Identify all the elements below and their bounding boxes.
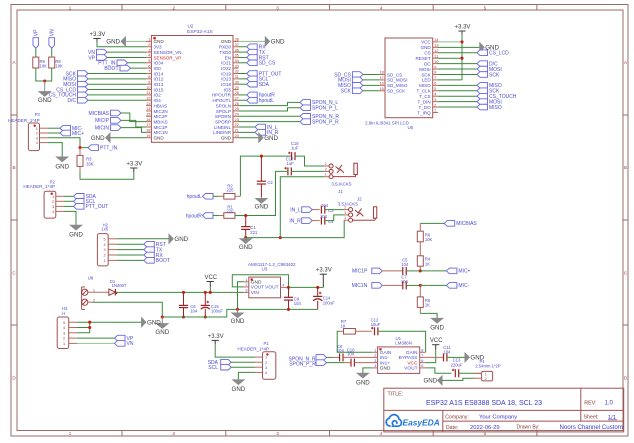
svg-text:PTT_IN: PTT_IN (100, 145, 118, 151)
svg-text:221: 221 (250, 230, 258, 235)
capacitor C2 (260, 156, 262, 181)
svg-text:220uF: 220uF (451, 362, 463, 367)
svg-text:104: 104 (294, 301, 302, 306)
wire (121, 120, 146, 127)
net flag D/C (78, 97, 89, 103)
svg-text:1: 1 (103, 259, 105, 263)
svg-text:EasyEDA: EasyEDA (403, 417, 440, 427)
U2 pin 11 IO2 (146, 94, 151, 96)
wire (438, 73, 477, 75)
resistor R1 220 (219, 215, 224, 217)
svg-text:GND: GND (174, 236, 188, 243)
wire (438, 84, 477, 86)
svg-text:34: 34 (235, 59, 239, 63)
wire (325, 215, 344, 221)
net flag VN top (49, 38, 55, 49)
wire (438, 52, 477, 54)
junction (287, 286, 290, 289)
wire jack ground bus (246, 220, 345, 237)
net flag VP top (33, 38, 39, 49)
U6 pin 6 MISO (433, 84, 438, 86)
svg-text:10K: 10K (40, 63, 48, 68)
wire (235, 215, 246, 217)
capacitor C3 104 (312, 209, 320, 211)
junction (204, 315, 207, 318)
svg-text:HEADER_1*4P: HEADER_1*4P (237, 346, 269, 351)
svg-text:8: 8 (421, 349, 423, 353)
svg-text:2.54mm 1*2P: 2.54mm 1*2P (475, 364, 501, 369)
svg-text:hpoutL: hpoutL (187, 194, 203, 200)
net flag MIC- (48, 127, 60, 129)
junction (88, 321, 91, 324)
EasyEDA logo (386, 415, 401, 427)
svg-text:SPORP: SPORP (215, 119, 231, 124)
svg-text:SPOLN: SPOLN (216, 103, 231, 108)
wire (88, 89, 146, 91)
wire VOUT to C13 (426, 368, 452, 373)
svg-text:P3: P3 (35, 112, 41, 117)
wire (107, 51, 146, 53)
svg-text:4: 4 (36, 141, 38, 145)
ground GND flag at U2 pin20 (239, 137, 259, 139)
wire (239, 83, 247, 85)
net flag MIC+ (420, 270, 446, 272)
wire (117, 254, 144, 256)
wire (213, 215, 218, 217)
U2 pin 38 GND (233, 40, 239, 42)
svg-text:15: 15 (380, 87, 384, 91)
wire (363, 90, 380, 92)
title block (384, 388, 624, 432)
svg-text:14: 14 (146, 107, 150, 111)
ground at P3 pin4 (48, 143, 62, 157)
svg-text:2: 2 (325, 162, 327, 166)
U2 pin 1 GND (146, 40, 151, 42)
svg-text:MIC+: MIC+ (458, 269, 470, 275)
wire U8 pin2 to ground rail (92, 302, 162, 317)
wire (117, 243, 144, 245)
svg-text:35: 35 (235, 54, 239, 58)
wire R3 to +3.3V (79, 166, 81, 171)
svg-text:1: 1 (374, 349, 376, 353)
svg-text:ESP32 A1S ES8388 SDA 18, SCL 2: ESP32 A1S ES8388 SDA 18, SCL 23 (426, 400, 542, 407)
U2 pin 25 SPOLP (233, 110, 239, 112)
svg-text:SCL: SCL (208, 365, 218, 371)
wire (438, 106, 477, 108)
svg-text:13: 13 (146, 102, 150, 106)
svg-text:U2: U2 (187, 24, 193, 29)
svg-text:10: 10 (434, 60, 438, 64)
net flag MICBIAS right (420, 222, 444, 224)
connector J1 3.5JACKS (324, 165, 329, 167)
svg-text:B: B (12, 165, 15, 170)
net flag SCK (78, 71, 89, 77)
svg-text:+3.3V: +3.3V (316, 268, 332, 274)
svg-text:4: 4 (380, 5, 383, 10)
svg-text:MICBIAS: MICBIAS (456, 221, 477, 227)
svg-text:3: 3 (434, 98, 436, 102)
ground (44, 81, 46, 92)
U2 pin 2 3V3 (146, 46, 151, 48)
svg-text:2: 2 (36, 132, 38, 136)
svg-text:hpoutL: hpoutL (259, 98, 275, 104)
svg-text:GND: GND (155, 329, 169, 336)
junction (161, 315, 164, 318)
svg-text:SD_CS: SD_CS (387, 72, 402, 77)
svg-text:LM386N: LM386N (395, 340, 412, 345)
wire U3 VOUT loop (232, 275, 288, 288)
svg-text:29: 29 (235, 86, 239, 90)
svg-text:104: 104 (401, 279, 409, 284)
junction (287, 308, 290, 311)
svg-text:GND: GND (264, 135, 278, 142)
U6 pin 7 LED (433, 79, 438, 81)
ground (260, 197, 262, 198)
svg-text:SD_SCK: SD_SCK (387, 89, 405, 94)
svg-text:T_IRQ: T_IRQ (417, 110, 431, 115)
svg-text:GAIN: GAIN (406, 350, 418, 356)
U2 pin 28 HPOUTR (233, 94, 239, 96)
net flag MICBIAS at MBIAS (111, 110, 122, 116)
wire C17 to J1 ring (291, 170, 324, 172)
capacitor C6 104 (183, 292, 185, 305)
svg-text:T_CS: T_CS (419, 94, 431, 99)
svg-text:2: 2 (245, 283, 247, 287)
svg-text:1: 1 (52, 195, 54, 199)
svg-text:GND: GND (221, 39, 232, 44)
junction (204, 291, 207, 294)
svg-text:GND: GND (91, 135, 105, 142)
svg-text:T_DO: T_DO (419, 105, 432, 110)
svg-text:3: 3 (344, 211, 346, 215)
svg-text:GND: GND (251, 280, 262, 286)
svg-text:MIC1N: MIC1N (352, 283, 368, 289)
svg-text:3.5JACKS: 3.5JACKS (338, 201, 358, 206)
wire VOUT to +3.3V and C14 (289, 286, 324, 288)
svg-text:GND: GND (69, 232, 83, 239)
ground GND flag at C11 (447, 356, 465, 358)
wire (438, 68, 477, 70)
ground rail left (162, 309, 317, 317)
svg-text:2: 2 (434, 103, 436, 107)
svg-text:4: 4 (52, 210, 54, 214)
ground below rail at U3 (237, 309, 239, 313)
svg-text:HPOUTL: HPOUTL (213, 98, 232, 103)
svg-text:GND: GND (221, 136, 232, 141)
svg-text:Date:: Date: (446, 425, 458, 431)
svg-text:SPON_P_R: SPON_P_R (289, 362, 316, 368)
svg-text:CS_LCD: CS_LCD (489, 51, 509, 57)
svg-text:SD_MOSI: SD_MOSI (387, 78, 407, 83)
capacitor C4 104 (312, 220, 320, 222)
svg-text:17: 17 (380, 76, 384, 80)
svg-text:GND: GND (147, 319, 161, 326)
wire (363, 79, 380, 81)
U6 pin 3 T_DIN (433, 101, 438, 103)
svg-text:38: 38 (235, 38, 239, 42)
net flag SPON_P_L (239, 108, 301, 111)
wire (239, 78, 247, 80)
U2 pin 16 MBIAS (146, 121, 151, 123)
svg-text:GND: GND (356, 380, 370, 387)
wire U3 GND to rail (238, 282, 244, 310)
svg-text:1: 1 (69, 431, 72, 436)
wire (88, 94, 146, 96)
svg-text:TXD0: TXD0 (219, 50, 231, 55)
svg-text:15: 15 (146, 113, 150, 117)
svg-text:DC: DC (424, 61, 431, 66)
wire H3 pins 3-5 tied (77, 321, 141, 323)
svg-text:IO5: IO5 (224, 87, 232, 92)
svg-text:MIC2P: MIC2P (154, 114, 168, 119)
U2 pin 8 IO12 (146, 78, 151, 80)
U2 pin 7 IO14 (146, 73, 151, 75)
U2 pin 4 SENSOR_VP (146, 56, 151, 58)
svg-text:IO2: IO2 (154, 93, 162, 98)
U6 pin 15 SD_SCK (380, 90, 386, 92)
U6 pin 10 DC (433, 63, 438, 65)
svg-text:1K: 1K (425, 303, 430, 308)
wire (64, 200, 74, 202)
svg-text:T_DIN: T_DIN (418, 99, 431, 104)
svg-text:104: 104 (190, 309, 198, 314)
wire (239, 51, 247, 53)
svg-text:GND: GND (239, 244, 253, 251)
wire (438, 95, 477, 97)
svg-text:16: 16 (146, 118, 150, 122)
U2 pin 15 MIC2P (146, 115, 151, 117)
svg-text:SDA: SDA (259, 82, 270, 88)
svg-text:5: 5 (103, 237, 105, 241)
svg-text:VIN: VIN (251, 290, 260, 296)
wire (325, 209, 344, 211)
resistor R8 10K (51, 48, 53, 57)
svg-text:GND: GND (38, 97, 52, 104)
svg-text:2: 2 (63, 337, 65, 341)
svg-text:MIC+: MIC+ (72, 131, 84, 137)
svg-text:2: 2 (103, 254, 105, 258)
junction (244, 236, 247, 239)
U6 pin 4 T_CS (433, 95, 438, 97)
svg-text:SENSOR_VN: SENSOR_VN (154, 50, 182, 55)
svg-text:22: 22 (235, 123, 239, 127)
net flag IN_R at LINEINR (239, 131, 256, 133)
svg-text:C2: C2 (267, 180, 273, 185)
svg-text:7: 7 (421, 354, 423, 358)
svg-text:1: 1 (63, 342, 65, 346)
svg-text:37: 37 (235, 43, 239, 47)
svg-text:1K: 1K (340, 323, 345, 328)
capacitor C1 221 (245, 216, 247, 227)
net flag MIC- (420, 284, 446, 286)
svg-text:5: 5 (434, 87, 436, 91)
svg-text:27: 27 (235, 96, 239, 100)
svg-text:10K: 10K (425, 237, 433, 242)
ground GND flag at U2 pin1 (126, 40, 147, 42)
svg-text:7: 7 (148, 70, 150, 74)
svg-text:18: 18 (380, 71, 384, 75)
svg-text:U3: U3 (262, 267, 268, 272)
svg-text:HBIAS: HBIAS (154, 103, 168, 108)
svg-text:SCK: SCK (341, 89, 352, 95)
net flag BOOT at IO0 (120, 65, 131, 71)
U2 pin 24 SPORN (233, 115, 239, 117)
U2 pin 36 TXD0 (233, 51, 239, 53)
svg-text:RESET: RESET (416, 56, 431, 61)
svg-text:IN1+: IN1+ (380, 360, 390, 366)
U6 pin 18 SD_CS (380, 73, 386, 75)
svg-text:21: 21 (235, 129, 239, 133)
U6 pin 16 SD_MISO (380, 84, 386, 86)
U2 pin 22 LINEINL (233, 126, 239, 128)
U6 pin 1 T_IRQ (433, 111, 438, 113)
svg-text:104: 104 (320, 214, 328, 219)
ground at U1 GND (363, 368, 372, 373)
svg-text:SPOLP: SPOLP (216, 109, 231, 114)
svg-text:T_CLK: T_CLK (417, 89, 431, 94)
wire (426, 350, 436, 363)
net flag MIC+ (48, 132, 60, 134)
svg-text:1: 1 (325, 173, 327, 177)
svg-text:4: 4 (380, 431, 383, 436)
capacitor C15 100uF (204, 292, 206, 305)
ground GND flag at U6 GND (438, 46, 480, 48)
junction (182, 315, 185, 318)
U2 pin 13 HBIAS (146, 105, 151, 107)
wire C18 to J1 tip (295, 156, 324, 166)
svg-text:11: 11 (434, 54, 438, 58)
svg-text:220: 220 (227, 209, 235, 214)
svg-text:1x5: 1x5 (101, 226, 108, 231)
svg-text:GND: GND (154, 39, 165, 44)
svg-text:1: 1 (265, 356, 267, 360)
svg-text:GND: GND (423, 378, 437, 385)
svg-text:MIC-: MIC- (458, 283, 469, 289)
U2 pin 30 IO18 (233, 83, 239, 85)
net flag MOSI (78, 81, 89, 87)
svg-text:IO0: IO0 (154, 66, 162, 71)
svg-text:18: 18 (146, 129, 150, 133)
svg-text:BOOT: BOOT (156, 258, 170, 264)
svg-text:GND: GND (106, 39, 120, 46)
svg-text:+3.3V: +3.3V (208, 334, 224, 340)
U2 pin 26 SPOLN (233, 105, 239, 107)
svg-text:9: 9 (434, 65, 436, 69)
svg-text:4: 4 (374, 364, 376, 368)
U6 pin 8 SCK (433, 73, 438, 75)
ground GND flag at U2 pin19 (111, 137, 147, 139)
U6 pin 14 VCC (433, 41, 438, 43)
svg-text:MIC2N: MIC2N (154, 109, 168, 114)
wire (121, 113, 146, 122)
svg-text:VCC: VCC (421, 40, 431, 45)
svg-text:IO19: IO19 (221, 71, 231, 76)
svg-text:MIC1P: MIC1P (154, 125, 168, 130)
wire +3.3V rail to VCC RESET LED (461, 35, 463, 80)
wire (88, 78, 146, 80)
wire (438, 90, 477, 92)
wire (88, 99, 146, 101)
svg-text:GND: GND (231, 318, 245, 325)
net flag MISO (352, 83, 363, 89)
svg-text:MISO: MISO (419, 83, 431, 88)
U2 pin 5 IO34 (146, 62, 151, 64)
svg-text:12: 12 (434, 49, 438, 53)
svg-text:MICIP: MICIP (95, 118, 110, 124)
net flag MOSI (352, 77, 363, 83)
U2 pin 27 HPOUTL (233, 99, 239, 101)
svg-text:AMS1117-1.2_C963402: AMS1117-1.2_C963402 (248, 262, 296, 267)
svg-text:GAIN: GAIN (380, 350, 392, 356)
svg-text:Company:: Company: (445, 414, 469, 420)
wire (231, 366, 255, 368)
svg-text:4: 4 (265, 371, 267, 375)
svg-text:23: 23 (235, 118, 239, 122)
svg-text:IO4: IO4 (154, 98, 162, 103)
svg-text:U6: U6 (407, 125, 413, 130)
svg-text:SPON_P_R: SPON_P_R (312, 119, 339, 125)
svg-text:10K: 10K (55, 63, 63, 68)
net flag SD_CS (352, 72, 363, 78)
svg-text:36: 36 (235, 48, 239, 52)
wire (239, 46, 247, 48)
svg-text:SCK: SCK (489, 72, 500, 78)
svg-text:1: 1 (245, 278, 247, 282)
svg-text:3: 3 (276, 5, 279, 10)
U2 pin 6 IO0 (146, 67, 151, 69)
U2 pin 18 MIC1N (146, 131, 151, 133)
svg-text:MICIN: MICIN (95, 125, 110, 131)
U6 pin 5 T_CLK (433, 90, 438, 92)
junction (260, 155, 263, 158)
junction (182, 291, 185, 294)
svg-text:VOUT: VOUT (404, 366, 417, 372)
wire (215, 344, 255, 357)
svg-text:3: 3 (374, 359, 376, 363)
svg-text:6: 6 (434, 82, 436, 86)
svg-text:1: 1 (36, 127, 38, 131)
junction (244, 214, 247, 217)
svg-text:H: H (62, 311, 65, 316)
svg-text:3: 3 (36, 136, 38, 140)
svg-text:TITLE:: TITLE: (388, 391, 404, 397)
svg-text:IO34: IO34 (154, 61, 164, 66)
svg-text:Noors Channel Custom: Noors Channel Custom (560, 424, 623, 431)
svg-text:104: 104 (347, 352, 355, 357)
svg-text:10: 10 (146, 86, 150, 90)
svg-text:J2: J2 (357, 197, 362, 202)
svg-text:1.0: 1.0 (605, 401, 614, 407)
svg-text:REV:: REV: (584, 401, 596, 407)
svg-text:6: 6 (421, 359, 423, 363)
svg-text:MIC1N: MIC1N (154, 130, 168, 135)
junction (236, 308, 239, 311)
ground (245, 238, 247, 239)
svg-text:1: 1 (69, 5, 72, 10)
wire divider to ground (36, 68, 52, 81)
svg-text:hpoutR: hpoutR (186, 213, 203, 219)
junction (209, 291, 212, 294)
svg-text:IO13: IO13 (154, 82, 164, 87)
svg-text:C3: C3 (328, 208, 334, 213)
wire (97, 42, 146, 47)
svg-text:100uF: 100uF (211, 309, 223, 314)
svg-text:1N4007: 1N4007 (112, 283, 127, 288)
U2 pin 23 SPORP (233, 121, 239, 123)
wire (128, 62, 147, 64)
junction (460, 57, 463, 60)
svg-text:5: 5 (421, 364, 423, 368)
